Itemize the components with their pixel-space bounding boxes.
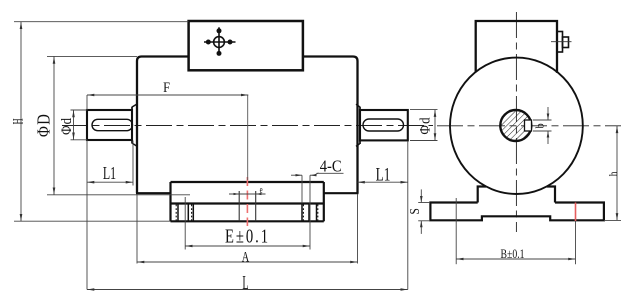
H arrows bbox=[20, 22, 23, 29]
A arrows bbox=[137, 261, 144, 264]
E arrows bbox=[185, 245, 192, 248]
body housing outline bbox=[137, 57, 358, 194]
left shaft keyway slot bbox=[92, 119, 133, 130]
svg-text:H: H bbox=[9, 118, 26, 124]
L1 left arrows bbox=[87, 181, 94, 184]
svg-text:B±0.1: B±0.1 bbox=[500, 248, 524, 261]
housing circle bbox=[450, 58, 583, 194]
red center line (left view, dashed) bbox=[246, 177, 248, 226]
svg-text:e: e bbox=[260, 184, 263, 196]
h arrows bbox=[616, 126, 619, 133]
svg-text:Φd: Φd bbox=[59, 117, 75, 135]
svg-text:b: b bbox=[534, 123, 547, 129]
centerline (horizontal axis, left view) bbox=[62, 125, 433, 127]
dim H bbox=[14, 21, 189, 23]
keyway notch bbox=[525, 120, 532, 131]
vertical centerline right view bbox=[515, 12, 517, 232]
red bolt line (right view) bbox=[575, 203, 577, 222]
junction box (left view) bbox=[189, 21, 303, 70]
dim E bbox=[184, 197, 186, 250]
dim Phid right bbox=[410, 109, 438, 111]
dim 4-C bbox=[301, 175, 303, 203]
right shaft keyway slot bbox=[363, 119, 404, 131]
body bottom ledge right bbox=[324, 192, 359, 194]
F right extension line (body center) bbox=[247, 95, 249, 180]
right shaft root lip bbox=[359, 107, 361, 144]
left shaft end lip bbox=[131, 107, 133, 144]
horizontal centerline right view bbox=[437, 125, 621, 127]
svg-text:h: h bbox=[607, 171, 620, 176]
shaft circle hatched bbox=[500, 110, 531, 141]
saddle base (right view) bbox=[430, 187, 604, 221]
svg-text:E±0.1: E±0.1 bbox=[225, 226, 270, 247]
svg-text:L1: L1 bbox=[103, 165, 116, 184]
F arrows bbox=[87, 94, 94, 97]
right shaft bbox=[360, 110, 408, 140]
left shaft bbox=[87, 110, 132, 140]
dim b bbox=[533, 119, 552, 121]
L1 right arrows bbox=[358, 181, 365, 184]
L arrows bbox=[87, 288, 94, 291]
e ticks bbox=[234, 193, 240, 195]
Phid left arrows bbox=[72, 110, 75, 117]
dim A bbox=[136, 194, 138, 264]
svg-text:A: A bbox=[242, 249, 249, 265]
PhiD arrows bbox=[53, 56, 56, 63]
svg-text:ΦD: ΦD bbox=[33, 113, 54, 137]
dim h bbox=[616, 126, 618, 221]
svg-text:F: F bbox=[163, 79, 170, 95]
cable gland connector bbox=[557, 32, 563, 53]
dim e bbox=[229, 193, 266, 195]
crosshair symbol on junction box bbox=[204, 27, 236, 55]
middle rib lines with e-dimension bbox=[239, 191, 256, 221]
dim L1 left bbox=[86, 140, 88, 290]
svg-text:Φd: Φd bbox=[417, 116, 433, 134]
svg-text:4-C: 4-C bbox=[320, 157, 342, 175]
dim Phid left ext bbox=[71, 109, 88, 111]
body bottom ledge left bbox=[136, 192, 171, 194]
dim S bbox=[418, 202, 430, 204]
B arrows bbox=[456, 258, 463, 261]
hidden slot lines (dashed) bbox=[176, 205, 318, 221]
base slot lines (feet, left view) bbox=[178, 204, 317, 222]
svg-text:S: S bbox=[407, 208, 422, 214]
svg-text:L1: L1 bbox=[376, 163, 391, 185]
junction box (right view) bbox=[476, 21, 557, 73]
S arrows bbox=[420, 196, 423, 203]
4-C arrows bbox=[296, 174, 303, 176]
dim L bbox=[87, 289, 408, 291]
b arrows bbox=[547, 114, 550, 121]
Phid right arrows bbox=[434, 110, 437, 117]
base flange (left view) bbox=[171, 182, 324, 221]
dim PhiD ext bbox=[47, 55, 137, 57]
dim B bbox=[455, 198, 457, 264]
dim F bbox=[87, 94, 248, 96]
svg-text:L: L bbox=[242, 273, 248, 294]
dim L1 right bbox=[407, 141, 409, 290]
